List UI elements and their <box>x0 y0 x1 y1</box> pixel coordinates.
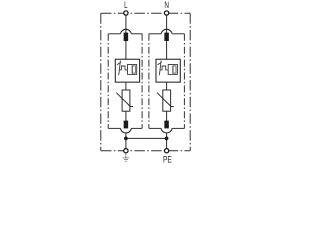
thermal disconnect device path 2 (filled) <box>164 33 169 41</box>
wire varistor 2 to bottom contact 2 <box>166 111 168 121</box>
wire bottom contact 2 to PE bus <box>166 133 168 149</box>
terminal ground side (circle) <box>124 149 128 153</box>
svg-text:PE: PE <box>163 155 172 164</box>
thermal disconnect device path 1 (filled) <box>124 33 128 41</box>
plug contact arc top, path 2 <box>161 29 172 34</box>
varistor RV2 <box>157 90 174 111</box>
wire L terminal to disconnector 1 <box>125 15 127 33</box>
varistor RV1 <box>116 90 133 111</box>
wire N terminal to disconnector 2 <box>166 15 168 33</box>
wire disconnector 1 to spark gap box 1 <box>125 41 127 59</box>
junction node 1 <box>124 137 128 141</box>
wire bottom contact 1 to PE bus <box>125 133 127 149</box>
terminal N (circle) <box>164 11 168 15</box>
wire spark gap box 1 to varistor 1 <box>125 82 127 90</box>
triggered spark gap box U1 <box>115 59 139 82</box>
ground symbol <box>123 153 129 161</box>
module 1 boundary (plug-in protection module, dash-dot sides) <box>108 34 142 129</box>
plug contact arc top, path 1 <box>120 29 131 34</box>
enclosure (device boundary, dash-dot) <box>101 13 190 151</box>
svg-text:N: N <box>164 0 169 10</box>
wire varistor 1 to bottom contact 1 <box>125 111 127 121</box>
triggered spark gap box U2 <box>156 59 180 82</box>
PE bus wire <box>126 137 167 139</box>
thermal disconnect device bottom path 1 (filled) <box>124 121 128 129</box>
terminal PE (circle) <box>164 149 168 153</box>
thermal disconnect device bottom path 2 (filled) <box>164 121 169 129</box>
terminal L (circle) <box>124 11 128 15</box>
plug contact arc bottom, path 2 <box>161 128 172 133</box>
junction node 2 <box>165 137 169 141</box>
module 2 boundary (plug-in protection module, dash-dot sides) <box>149 34 185 129</box>
wire disconnector 2 to spark gap box 2 <box>166 41 168 59</box>
svg-text:L: L <box>124 0 127 10</box>
plug contact arc bottom, path 1 <box>120 128 131 133</box>
wire spark gap box 2 to varistor 2 <box>166 82 168 90</box>
